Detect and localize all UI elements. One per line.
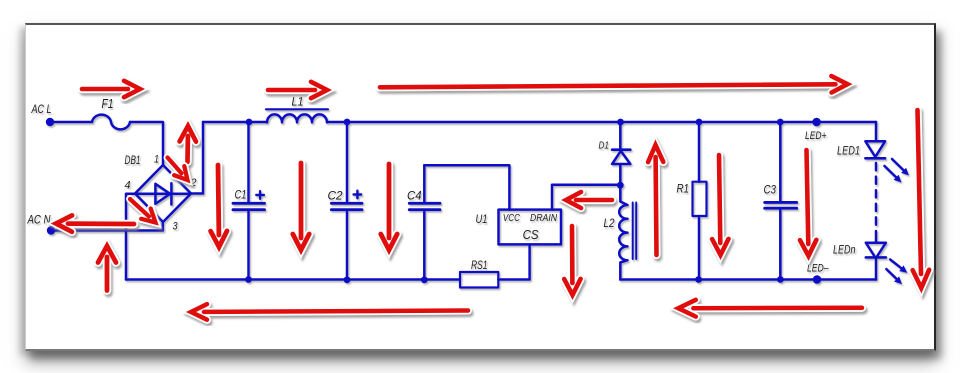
inductor L2 coil bbox=[619, 185, 627, 279]
svg-text:C2: C2 bbox=[328, 189, 343, 203]
current-flow arrow down C2-C4 bbox=[381, 164, 397, 250]
resistor R1 leg bottom bbox=[698, 216, 701, 280]
fuse F1 bbox=[92, 115, 130, 130]
wire AC N to bridge pin 3 bbox=[51, 222, 163, 231]
controller U1 box bbox=[499, 210, 562, 245]
node C1 top bbox=[246, 119, 253, 126]
current-flow arrow down far right bbox=[913, 110, 929, 288]
current-flow arrow AC L in bbox=[82, 81, 140, 97]
wire bridge pin 4 leg bbox=[126, 194, 135, 280]
bridge rectifier DB1 diamond bbox=[135, 165, 191, 222]
inductor L1 coil bbox=[267, 114, 327, 122]
svg-text:AC L: AC L bbox=[31, 104, 52, 116]
wire CS pin down bbox=[498, 244, 529, 279]
node R1 bottom bbox=[695, 276, 702, 283]
node D1 top bbox=[617, 119, 624, 126]
svg-text:C4: C4 bbox=[407, 189, 422, 203]
current-flow arrow bridge 4-3 diag bbox=[130, 199, 156, 223]
svg-text:F1: F1 bbox=[102, 97, 114, 111]
bottom-right rail bbox=[620, 278, 876, 281]
current-flow arrow down right of U1 bbox=[564, 226, 580, 295]
node C4 bottom bbox=[421, 276, 428, 283]
current-flow arrow down DB1-C1 bbox=[211, 165, 227, 247]
LED1 emission arrows bbox=[885, 159, 910, 183]
capacitor C1 leg top bbox=[247, 122, 250, 203]
svg-text:L2: L2 bbox=[604, 218, 616, 230]
capacitor C4 plates bbox=[409, 203, 440, 209]
terminal LED- bbox=[813, 275, 822, 284]
svg-text:D1: D1 bbox=[599, 140, 610, 152]
current-flow arrow AC N leg up bbox=[98, 246, 116, 291]
wire bridge pin 2 to top rail bbox=[191, 122, 203, 194]
inductor L2 core bars bbox=[633, 203, 637, 260]
current-flow arrow bridge pin1 up bbox=[180, 126, 196, 162]
LEDn emission arrows bbox=[886, 260, 907, 285]
capacitor C2 leg bottom bbox=[346, 210, 349, 280]
terminal LED+ bbox=[812, 118, 821, 127]
capacitor C4 leg bottom bbox=[423, 210, 426, 280]
capacitor C2 plates bbox=[331, 203, 362, 209]
top rail from L1 to LED string corner bbox=[327, 121, 876, 124]
wire DRAIN pin to D1/L2 node bbox=[552, 185, 620, 210]
current-flow arrow through L1 bbox=[268, 82, 327, 98]
terminal AC N bbox=[47, 226, 55, 234]
node DRAIN/D1/L2 junction bbox=[617, 182, 624, 189]
svg-text:LED–: LED– bbox=[807, 263, 829, 275]
wire fuse to bridge pin 1 bbox=[130, 122, 163, 165]
resistor R1 leg top bbox=[698, 122, 701, 182]
dashed wire LED1 to LEDn bbox=[875, 163, 878, 239]
wire AC L to fuse bbox=[50, 121, 92, 124]
svg-text:VCC: VCC bbox=[503, 212, 520, 224]
current-flow arrow top rail long bbox=[380, 76, 848, 92]
svg-text:L1: L1 bbox=[292, 97, 304, 109]
svg-text:C1: C1 bbox=[235, 188, 247, 202]
wire top rail corner down to LED1 bbox=[875, 122, 878, 141]
svg-text:4: 4 bbox=[125, 180, 131, 192]
top rail left segment (pin2 riser to L1) bbox=[203, 121, 267, 124]
capacitor C1 plus sign bbox=[256, 191, 264, 199]
capacitor C3 plates bbox=[765, 202, 797, 208]
node C3 bottom bbox=[777, 276, 784, 283]
svg-text:LEDn: LEDn bbox=[833, 245, 856, 257]
capacitor C1 leg bottom bbox=[247, 210, 250, 280]
current-flow arrow bottom-right return bbox=[678, 300, 862, 317]
svg-text:R1: R1 bbox=[677, 184, 690, 196]
node C1 bottom bbox=[245, 276, 252, 283]
capacitor C1 plates bbox=[233, 203, 265, 209]
current-flow arrow bridge 1-2 diag bbox=[168, 158, 188, 181]
svg-text:LED1: LED1 bbox=[837, 146, 860, 158]
current-flow arrow down right of C3 bbox=[800, 150, 816, 256]
diode D1 wire from top rail bbox=[619, 122, 622, 150]
current-flow arrow into DRAIN bbox=[566, 192, 612, 208]
node C2 top bbox=[344, 119, 351, 126]
diode D1 bbox=[612, 150, 630, 186]
terminal AC L bbox=[46, 118, 54, 126]
capacitor C3 leg top bbox=[779, 122, 782, 202]
capacitor C2 leg top bbox=[346, 122, 349, 203]
LED LED1 bbox=[865, 141, 885, 158]
current-flow arrow down C1-C2 bbox=[293, 163, 309, 250]
node C2 bottom bbox=[344, 276, 351, 283]
current-flow arrow up left of R1 bbox=[648, 145, 663, 255]
svg-text:U1: U1 bbox=[476, 214, 488, 226]
resistor RS1 bbox=[460, 272, 498, 288]
capacitor C2 plus sign bbox=[354, 191, 362, 199]
node C3 top bbox=[777, 119, 784, 126]
resistor R1 bbox=[693, 182, 707, 216]
svg-text:RS1: RS1 bbox=[471, 258, 488, 272]
inductor L1 core bar bbox=[266, 108, 328, 110]
svg-text:AC N: AC N bbox=[27, 215, 51, 227]
svg-text:C3: C3 bbox=[764, 185, 777, 197]
LED LEDn bbox=[866, 239, 886, 258]
bottom-left rail bbox=[126, 278, 460, 281]
svg-text:LED+: LED+ bbox=[805, 130, 827, 142]
bridge DB1 inner diode bbox=[137, 183, 191, 204]
svg-text:1: 1 bbox=[154, 154, 159, 166]
capacitor C3 leg bottom bbox=[779, 208, 782, 279]
current-flow arrow down right of R1 bbox=[712, 155, 728, 255]
wire VCC pin to C4 top bbox=[424, 165, 509, 209]
capacitor C4 leg top bbox=[423, 165, 426, 203]
svg-text:CS: CS bbox=[523, 227, 539, 242]
current-flow arrow bottom-left return bbox=[191, 304, 468, 320]
svg-text:3: 3 bbox=[173, 221, 179, 233]
svg-text:DB1: DB1 bbox=[125, 155, 141, 167]
svg-text:DRAIN: DRAIN bbox=[530, 212, 557, 224]
wire LEDn to bottom rail bbox=[875, 258, 878, 279]
node R1 top bbox=[696, 119, 703, 126]
current-flow arrow AC N out bbox=[56, 215, 134, 231]
